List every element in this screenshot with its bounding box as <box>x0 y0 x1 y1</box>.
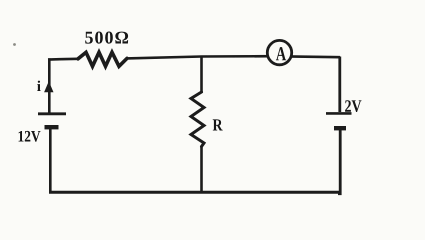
resistor R (vertical zigzag) <box>191 92 204 147</box>
wire: from 12V battery down to bottom rail <box>49 127 52 193</box>
wire: from 2V battery down to bottom-right corner <box>338 128 340 194</box>
wire: top rail from 500 ohm resistor to top-right corner <box>127 56 341 58</box>
resistor R1 500 ohm (zigzag) <box>78 52 127 66</box>
value label 500Ω <box>85 32 128 44</box>
value label 2V <box>345 100 361 112</box>
wire: top rail left stub (top-left corner to 500 ohm resistor) <box>48 57 79 60</box>
current arrow i (arrowhead on left wire) <box>44 81 53 92</box>
battery B2 2V negative plate (short thick) <box>334 126 346 130</box>
scan speck <box>13 43 16 46</box>
wire: bottom rail <box>49 191 341 194</box>
battery B1 12V negative plate (short thick) <box>45 125 59 129</box>
value label R <box>213 119 223 130</box>
wire: left vertical from top-left corner down to 12V battery <box>48 58 51 113</box>
wire: right vertical from top-right corner down to 2V battery <box>338 57 341 113</box>
value label 12V <box>19 131 41 142</box>
wire: middle vertical from top rail down to resistor R <box>200 57 203 94</box>
battery B1 12V positive plate (long) <box>38 112 66 115</box>
battery B2 2V positive plate (long) <box>326 112 352 115</box>
node label i <box>37 81 41 91</box>
ammeter label A <box>276 47 286 60</box>
ammeter U1 (circle) <box>267 40 291 64</box>
wire: from resistor R down to bottom rail <box>200 146 203 193</box>
